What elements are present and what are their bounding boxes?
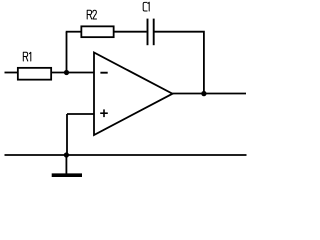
op-amp plus input label <box>100 109 108 117</box>
op-amp minus input label <box>100 72 107 74</box>
label R1 <box>23 52 31 61</box>
ground stub wire <box>65 155 67 174</box>
wire R1 to inverting input <box>51 72 94 74</box>
wire C1 to output corner and down <box>155 32 204 94</box>
wire input to R1 <box>5 72 18 74</box>
wire non-inverting input <box>67 113 94 115</box>
node A junction dot <box>64 70 69 75</box>
label C1 <box>143 2 149 11</box>
label R2 <box>87 10 96 19</box>
op-amp U1 <box>94 53 173 136</box>
output node junction dot <box>201 91 206 96</box>
ground node junction dot <box>64 152 69 157</box>
wire feedback to R2 <box>66 31 81 33</box>
resistor R1 <box>18 68 51 80</box>
capacitor C1 <box>148 19 154 46</box>
resistor R2 <box>81 26 113 37</box>
ground rail wire <box>5 154 247 156</box>
output wire <box>173 93 247 95</box>
wire R2 to C1 <box>114 31 147 33</box>
wire plus input down to ground rail <box>66 114 68 155</box>
ground <box>52 173 82 177</box>
wire node A up to feedback <box>66 32 68 73</box>
